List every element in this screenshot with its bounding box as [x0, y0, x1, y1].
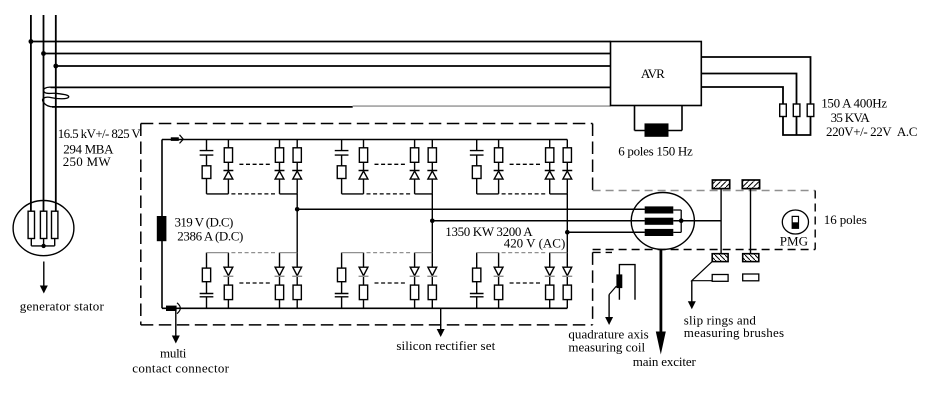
rectifier bottom AC rail [162, 307, 567, 309]
label slip rings and measuring brushes [684, 312, 784, 340]
rectifier group 3 top row: resistor+diode branch b2 [494, 140, 504, 194]
rectifier group 3 bottom row mid dashes [510, 282, 543, 284]
node junction bus B [41, 51, 46, 56]
rectifier group 2 top row: resistor+diode branch b2 [359, 140, 369, 194]
rectifier group 1 top row: capacitor+resistor branch [200, 140, 214, 194]
rectifier group 3 bottom row connecting rail gray [477, 252, 568, 254]
rectifier group 2 bottom row: resistor+capacitor branch [335, 253, 349, 309]
wire slip ring pointer diagonal [692, 262, 712, 281]
node output phase 2 junction [430, 219, 435, 224]
node junction bus A [29, 39, 34, 44]
wire AVR output line 3 [701, 87, 783, 104]
wire AVR output line 2 [701, 74, 796, 105]
rectifier left DC bus vertical [161, 140, 163, 309]
svg-text:2386 A (D.C): 2386 A (D.C) [177, 228, 243, 243]
wire exciter output to brushes [673, 220, 721, 222]
rectifier group 2 bottom row: diode+resistor branch b4 [427, 253, 437, 309]
svg-text:main exciter: main exciter [633, 354, 697, 369]
svg-text:16.5 kV+/- 825 V: 16.5 kV+/- 825 V [58, 126, 142, 141]
svg-text:250 MW: 250 MW [63, 154, 112, 169]
PMG magnet icon [792, 216, 798, 228]
node output phase 3 junction [565, 230, 570, 235]
rectifier group 3 top row connecting rail [477, 193, 568, 195]
exciter winding bar 2 [645, 218, 674, 225]
generator stator circle [13, 201, 74, 256]
wire group 2 phase output vertical [431, 194, 433, 253]
rectifier group 2 bottom row: diode+resistor branch b2 [359, 253, 369, 309]
arrow slip rings pointer [688, 281, 696, 310]
wire rectifier output phase 2 to exciter [432, 220, 645, 222]
rectifier group 1 bottom row mid dashes [239, 282, 272, 284]
AVR box U1 [611, 42, 702, 106]
label PMG feeder ratings [821, 96, 917, 140]
svg-text:measuring coil: measuring coil [568, 340, 645, 355]
fuse F1 [780, 104, 787, 117]
exciter field connector 6 poles [635, 106, 683, 137]
fuse F2 [793, 104, 800, 117]
svg-text:16 poles: 16 poles [824, 212, 867, 227]
slip ring block 1 [712, 275, 728, 282]
svg-text:multi: multi [160, 346, 187, 361]
wire group 3 phase output vertical [566, 194, 568, 253]
rectifier group 1 top row: resistor+diode branch b4 [292, 140, 302, 194]
wire rectifier output phase 1 to exciter [297, 208, 645, 210]
rectifier group 1 bottom row: diode+resistor branch b3 [275, 253, 285, 309]
multi contact connector bottom [166, 303, 180, 314]
rectifier group 2 top row: capacitor+resistor branch [335, 140, 349, 194]
quadrature axis coil loop [619, 265, 635, 300]
wire brush column 1 [720, 189, 722, 254]
arrow multi contact connector pointer [172, 308, 180, 343]
rectifier group 1 bottom row rail dashed continuation [231, 252, 276, 254]
rectifier group 2 top row: resistor+diode branch b3 [410, 140, 420, 194]
rectifier group 2 top row rail dashed continuation [367, 164, 412, 194]
rectifier group 3 bottom row: diode+resistor branch b3 [545, 253, 555, 309]
svg-text:contact connector: contact connector [132, 361, 229, 376]
main exciter circle [631, 193, 694, 250]
DC busbar block 319V [157, 216, 167, 241]
multi contact connector top [171, 135, 184, 144]
rectifier group 1 top row: resistor+diode branch b2 [223, 140, 233, 194]
arrow quadrature coil pointer [605, 295, 613, 326]
svg-text:measuring brushes: measuring brushes [684, 325, 784, 340]
wire AVR output line 1 [701, 57, 810, 104]
svg-text:silicon rectifier set: silicon rectifier set [396, 338, 495, 353]
label AC output ratings [445, 224, 565, 251]
rectifier group 3 top row: resistor+diode branch b3 [545, 140, 555, 194]
wire transformer secondary top to AVR [51, 86, 611, 88]
wire bus phase B vertical [43, 15, 45, 211]
main exciter shaft with arrow [656, 249, 666, 354]
arrow generator stator label pointer [40, 262, 48, 294]
slip ring block 2 [743, 274, 759, 281]
rectifier group 1 bottom row: diode+resistor branch b2 [223, 253, 233, 309]
rectifier group 2 bottom row connecting rail gray [342, 252, 433, 254]
wire brush column 2 [750, 189, 752, 254]
rectifier group 1 top row rail dashed continuation [231, 164, 276, 194]
wire bus phase A vertical [30, 15, 32, 211]
exciter winding bar 1 [645, 206, 674, 213]
rectifier top AC rail [162, 139, 567, 141]
label DC ratings [175, 215, 244, 244]
rectifier group 2 bottom row mid dashes [375, 282, 408, 284]
wire transformer secondary bottom gray segment [353, 105, 611, 107]
generator stator winding 2 [40, 211, 46, 238]
exciter dashed enclosure [593, 191, 816, 253]
node stator neutral junction [41, 244, 45, 248]
svg-text:150 A 400Hz: 150 A 400Hz [821, 96, 887, 111]
generator stator winding 1 [28, 211, 34, 238]
quadrature axis coil block [616, 274, 622, 288]
svg-text:generator stator: generator stator [20, 298, 105, 313]
brush top hatched block 2 [742, 180, 759, 189]
rectifier group 2 bottom row rail dashed continuation [367, 252, 412, 254]
arrow silicon rectifier set pointer [437, 308, 445, 337]
svg-text:319 V (D.C): 319 V (D.C) [175, 215, 234, 230]
rectifier group 1 bottom row: resistor+capacitor branch [200, 253, 214, 309]
wire bus phase C vertical [55, 15, 57, 211]
label generator ratings [58, 126, 142, 169]
wire fuse outputs joined [783, 117, 811, 136]
wire bus phase C horizontal to AVR [56, 65, 611, 67]
transformer pickup coil scribble [43, 87, 69, 107]
fuse F3 [807, 104, 814, 117]
rectifier group 3 bottom row: diode+resistor branch b4 [562, 253, 572, 309]
rectifier group 1 top row connecting rail [207, 193, 298, 195]
svg-text:220V+/- 22V A.C: 220V+/- 22V A.C [826, 124, 917, 139]
rectifier group 2 top row connecting rail [342, 193, 433, 195]
wire exciter bar bracket [673, 210, 681, 232]
node exciter output junction [679, 218, 684, 223]
rectifier group 3 bottom row rail dashed continuation [502, 252, 547, 254]
rectifier group 1 top row: resistor+diode branch b3 [275, 140, 285, 194]
rectifier group 3 top row: capacitor+resistor branch [470, 140, 484, 194]
wire quadrature coil pointer diagonal [609, 286, 616, 294]
rectifier group 3 bottom row: resistor+capacitor branch [470, 253, 484, 309]
rectifier group 3 bottom row: diode+resistor branch b2 [494, 253, 504, 309]
wire rectifier output phase 3 to exciter [567, 231, 645, 233]
rectifier group 1 bottom row: diode+resistor branch b4 [292, 253, 302, 309]
rectifier group 2 bottom row: diode+resistor branch b3 [410, 253, 420, 309]
svg-text:6 poles 150 Hz: 6 poles 150 Hz [618, 143, 693, 158]
svg-text:420 V (AC): 420 V (AC) [504, 236, 566, 251]
node junction bus C [53, 64, 58, 69]
brush top hatched block 1 [712, 180, 729, 189]
brush bottom hatched block 1 [712, 254, 728, 262]
rectifier group 3 top row rail dashed continuation [502, 164, 547, 194]
label multi contact connector [132, 346, 229, 376]
wire stator star point [31, 239, 54, 246]
exciter winding bar 3 [645, 229, 674, 236]
wire transformer secondary bottom to AVR (black segment) [52, 106, 353, 108]
rectifier group 3 top row: resistor+diode branch b4 [562, 140, 572, 194]
generator stator winding 3 [52, 211, 58, 238]
svg-text:35 KVA: 35 KVA [831, 110, 871, 125]
rectifier group 2 top row: resistor+diode branch b4 [427, 140, 437, 194]
svg-text:AVR: AVR [641, 66, 665, 81]
wire bus phase B horizontal to AVR [44, 53, 611, 55]
PMG circle [782, 210, 808, 234]
silicon rectifier dashed enclosure [141, 124, 593, 325]
wire bus phase A horizontal to AVR [31, 41, 611, 43]
wire group 1 phase output vertical [296, 194, 298, 253]
rectifier group 1 bottom row connecting rail gray [207, 252, 298, 254]
svg-text:PMG: PMG [780, 233, 808, 248]
node output phase 1 junction [295, 207, 300, 212]
brush bottom hatched block 2 [743, 254, 759, 262]
label quadrature axis measuring coil [568, 326, 648, 354]
